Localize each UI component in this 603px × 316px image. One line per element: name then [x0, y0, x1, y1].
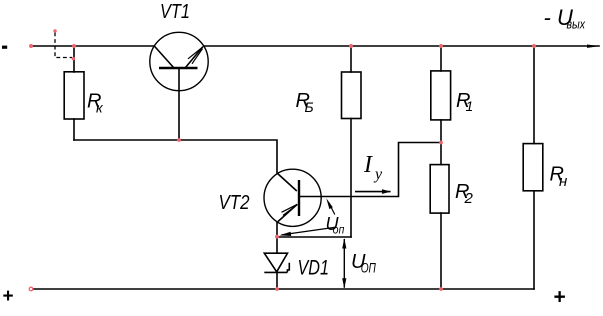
diode VD1 (zener) [264, 253, 289, 272]
arrow output rail end [587, 45, 600, 48]
node input terminal top [29, 44, 33, 48]
svg-text:I: I [363, 152, 373, 178]
node VT1 base junction [177, 138, 181, 142]
wire VT2 emitter to VD1 [276, 222, 278, 253]
wire top rail left segment [31, 45, 154, 47]
resistor Rn [523, 144, 543, 191]
dashed annotation at input [55, 33, 72, 58]
wire bottom rail [31, 288, 534, 290]
arrow Usp pointer [279, 227, 336, 236]
svg-text:VD1: VD1 [298, 255, 330, 279]
node divider junction [439, 141, 443, 145]
node R1 tap [439, 44, 443, 48]
node dashed end [72, 57, 75, 60]
label R1 [456, 90, 473, 114]
label Iy [363, 152, 383, 183]
node Rk tap [72, 44, 76, 48]
svg-text:+: + [3, 286, 14, 307]
svg-text:н: н [559, 173, 567, 190]
svg-text:2: 2 [464, 190, 474, 207]
svg-text:Б: Б [305, 99, 314, 115]
wire RB top [350, 46, 352, 72]
label RB [296, 90, 314, 115]
node VD1 bottom junction [275, 287, 279, 291]
wire RB bottom down to y237 [350, 119, 352, 238]
svg-text:VT2: VT2 [219, 192, 250, 214]
label Uop dimension [351, 251, 377, 276]
svg-text:у: у [373, 166, 383, 183]
node dashed top [53, 29, 56, 32]
svg-text:VT1: VT1 [160, 1, 190, 23]
node VT2 emitter junction [275, 235, 279, 239]
resistor R1 [431, 71, 451, 120]
label -Uout [544, 5, 586, 31]
wire VD1 cathode to bottom rail [276, 272, 278, 289]
wire y237 to emitter node [277, 236, 351, 238]
wire R1 top branch [440, 46, 442, 71]
svg-text:оп: оп [333, 222, 345, 236]
label Usp small [326, 214, 345, 236]
wire Rn bottom to bottom rail [533, 191, 535, 289]
arrow Ubase pointer [326, 198, 335, 214]
resistor RB [342, 72, 362, 119]
svg-text:вых: вых [567, 17, 586, 32]
wire R2 bottom to bottom rail [440, 213, 442, 289]
transistor VT2 [264, 169, 321, 226]
node input terminal bottom [29, 287, 33, 291]
label Rk [87, 90, 104, 115]
wire VT2 base to divider node [321, 143, 441, 197]
node Rn tap [532, 44, 536, 48]
arrow current Iy [355, 189, 391, 194]
dimension line Uop [342, 238, 346, 288]
wire R1 bottom to R2 top [440, 120, 442, 165]
wire Rk branch from rail [73, 46, 75, 72]
label R2 [455, 181, 474, 207]
label Rn [550, 163, 568, 190]
node RB tap [349, 44, 353, 48]
wire horizontal y140 to VT2 collector [74, 140, 277, 173]
wire VT1 base lead [178, 68, 180, 140]
svg-text:1: 1 [466, 98, 474, 114]
wire Rn top branch [533, 46, 535, 144]
wire Rk bottom to node wire [73, 119, 75, 140]
minus terminal mark [2, 46, 7, 49]
wire top rail right segment [204, 45, 599, 47]
resistor R2 [430, 165, 449, 214]
node R2 bottom junction [439, 287, 443, 291]
svg-text:+: + [554, 286, 566, 309]
svg-text:ОП: ОП [361, 259, 377, 275]
transistor VT1 [150, 32, 208, 90]
resistor Rk [64, 72, 84, 119]
